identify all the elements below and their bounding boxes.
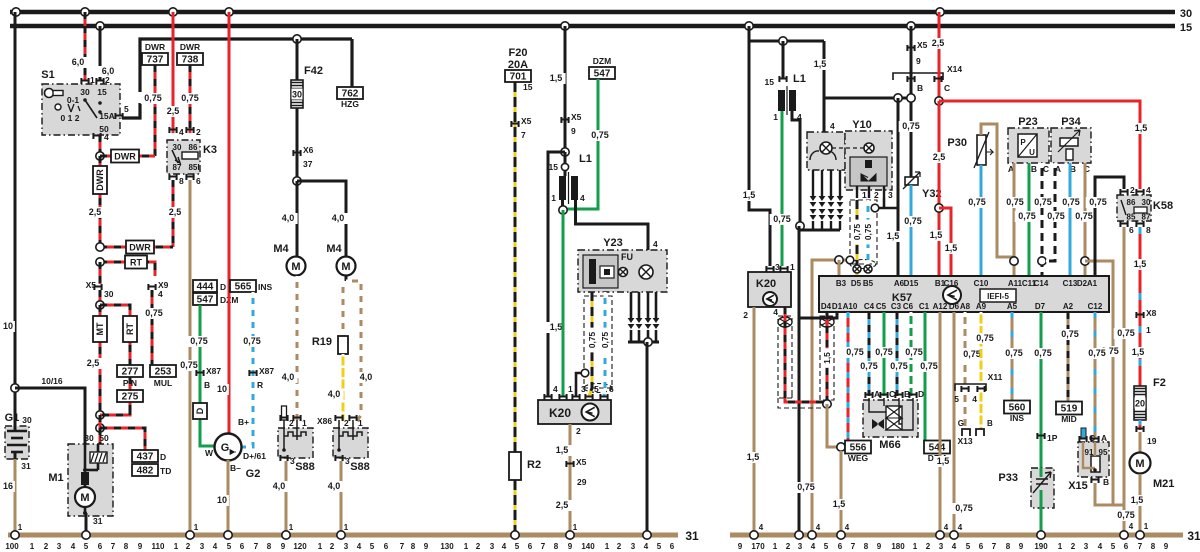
svg-text:0,75: 0,75 — [1075, 211, 1093, 221]
svg-text:0,75: 0,75 — [144, 93, 162, 103]
svg-text:K3: K3 — [203, 144, 217, 156]
wire blue/black 0,75 K57 C3 to M66 B — [896, 312, 899, 396]
svg-text:C: C — [944, 83, 950, 93]
connector X14 bracket — [893, 73, 943, 80]
wire blue 0,75 P30 to K57 terminal C10 — [980, 165, 983, 276]
wire brown 0,75 K57 D6 to bus 31 — [953, 312, 956, 535]
svg-text:31: 31 — [21, 461, 31, 471]
svg-text:30: 30 — [84, 433, 94, 443]
wire black/red 0,75 to 253 MUL — [151, 290, 154, 366]
svg-text:P: P — [1020, 138, 1026, 147]
svg-text:30: 30 — [173, 143, 182, 152]
wire brown 0,75 P34-C to K57 terminal D2 — [1084, 163, 1087, 276]
svg-text:F42: F42 — [304, 65, 323, 77]
svg-text:1: 1 — [790, 262, 795, 272]
svg-text:0,75: 0,75 — [863, 224, 873, 241]
svg-text:0,75: 0,75 — [890, 361, 908, 371]
svg-text:A: A — [874, 389, 880, 399]
svg-text:1: 1 — [773, 112, 778, 122]
svg-text:15: 15 — [549, 162, 559, 172]
wire brown/black 0,75 K57 A2 to 519 MID — [1067, 312, 1070, 402]
svg-text:0,75: 0,75 — [955, 503, 973, 513]
svg-text:738: 738 — [182, 55, 199, 66]
svg-text:C13: C13 — [1063, 279, 1078, 288]
svg-text:4,0: 4,0 — [360, 372, 373, 382]
octane plug X15 — [1081, 428, 1086, 438]
svg-text:1,5: 1,5 — [814, 59, 827, 69]
svg-text:1,5: 1,5 — [1131, 495, 1144, 505]
svg-text:0,75: 0,75 — [1005, 348, 1023, 358]
svg-text:15: 15 — [1180, 22, 1192, 34]
wire black M1 terminal 31 to bus 31 — [85, 513, 88, 535]
svg-text:1,5: 1,5 — [1135, 123, 1148, 133]
svg-text:1: 1 — [358, 418, 363, 428]
svg-text:4: 4 — [1129, 522, 1134, 531]
svg-text:A11: A11 — [1008, 279, 1023, 288]
vertical DWR tag on starter wire — [99, 156, 102, 247]
wire blue/black 0,75 K57 C4 to M66 A — [868, 312, 871, 396]
svg-text:6: 6 — [609, 384, 614, 394]
svg-text:X5: X5 — [571, 112, 582, 122]
node D6 ground — [950, 531, 958, 539]
svg-text:HZG: HZG — [341, 99, 359, 109]
svg-text:9: 9 — [738, 542, 743, 551]
svg-text:C3: C3 — [891, 302, 902, 311]
svg-text:R: R — [257, 380, 263, 390]
svg-text:C: C — [1043, 164, 1049, 174]
svg-text:0,75: 0,75 — [1117, 328, 1135, 338]
wire red 2,5 from bus 30 to K3 terminal 4 — [172, 12, 175, 133]
svg-text:2: 2 — [44, 542, 49, 551]
wire red 2,5 to K57 terminal B1 — [938, 101, 941, 276]
svg-text:547: 547 — [594, 69, 611, 80]
svg-text:D5: D5 — [851, 279, 862, 288]
svg-text:1: 1 — [605, 542, 610, 551]
svg-text:2,5: 2,5 — [167, 106, 180, 116]
svg-text:9: 9 — [1019, 542, 1024, 551]
svg-text:50: 50 — [99, 433, 109, 443]
svg-text:2: 2 — [786, 542, 791, 551]
svg-text:Y10: Y10 — [852, 119, 872, 131]
svg-text:9: 9 — [1164, 542, 1169, 551]
svg-text:6: 6 — [1124, 542, 1129, 551]
svg-text:1: 1 — [551, 193, 556, 203]
svg-text:5: 5 — [84, 542, 89, 551]
svg-text:0,75: 0,75 — [190, 336, 208, 346]
svg-text:9: 9 — [877, 542, 882, 551]
svg-text:8: 8 — [124, 542, 129, 551]
ground bus 31 left segment — [8, 533, 678, 538]
svg-text:30: 30 — [22, 415, 32, 425]
S1 terminal 5 output 15A — [114, 113, 123, 119]
wire black 1,5 from bus 15 down to K20 terminal 3 — [749, 26, 770, 266]
svg-text:B: B — [1103, 477, 1109, 487]
svg-text:0,75: 0,75 — [846, 347, 864, 357]
wire green 0,75 L1 right terminal 1 down to K20 terminal 1 — [781, 111, 784, 266]
svg-text:120: 120 — [293, 542, 307, 551]
svg-text:1,5: 1,5 — [945, 243, 958, 253]
svg-text:29: 29 — [577, 477, 587, 487]
svg-text:B: B — [917, 83, 923, 93]
svg-text:2: 2 — [743, 310, 748, 320]
node coil L1 right feed — [779, 37, 787, 45]
svg-text:8: 8 — [1006, 542, 1011, 551]
node on bus 30 at x85 — [81, 8, 89, 16]
wire black spark return to bus 31 right — [798, 226, 801, 535]
svg-text:2: 2 — [105, 75, 110, 85]
svg-text:4: 4 — [357, 542, 362, 551]
svg-text:B–: B– — [230, 463, 241, 473]
wire brown K20 terminal 2 to bus 31 — [569, 424, 572, 535]
svg-text:5: 5 — [594, 384, 599, 394]
connector pin 1P on knock sensor wire — [1036, 433, 1045, 439]
screen drain brown to bus 31 — [812, 260, 850, 535]
svg-text:4: 4 — [958, 523, 963, 532]
node A11 supply junction — [1010, 257, 1018, 265]
svg-text:86: 86 — [189, 143, 198, 152]
node K3 ground on bus 31 — [186, 531, 194, 539]
svg-text:5: 5 — [515, 542, 520, 551]
svg-text:RT: RT — [125, 323, 135, 335]
svg-text:3: 3 — [798, 542, 803, 551]
fuel pump motor M21 — [1139, 432, 1142, 453]
wire brown 16 from G1 to bus 31 — [14, 459, 17, 535]
svg-text:DWR: DWR — [114, 152, 136, 162]
svg-text:M66: M66 — [879, 439, 900, 451]
svg-text:0,75: 0,75 — [860, 361, 878, 371]
svg-text:2: 2 — [330, 542, 335, 551]
svg-text:9: 9 — [571, 126, 576, 136]
svg-text:2,5: 2,5 — [87, 358, 100, 368]
svg-text:10: 10 — [3, 321, 13, 331]
svg-text:B: B — [204, 380, 210, 390]
svg-text:D: D — [918, 389, 924, 399]
screen outline for Y23 sensor pair — [584, 296, 612, 388]
svg-text:30: 30 — [1142, 198, 1151, 207]
wire brown to K57 terminal B3 — [838, 260, 841, 276]
wire black/yellow from 701 to R2 — [514, 82, 517, 452]
node sensor feed row end — [907, 94, 915, 102]
svg-text:3: 3 — [490, 542, 495, 551]
svg-text:0,75: 0,75 — [1018, 211, 1036, 221]
svg-text:9: 9 — [281, 542, 286, 551]
svg-text:X87: X87 — [259, 366, 274, 376]
svg-text:0,75: 0,75 — [1047, 211, 1065, 221]
svg-text:M4: M4 — [273, 243, 289, 255]
engine control unit K57 — [819, 276, 1109, 312]
svg-text:4: 4 — [553, 384, 558, 394]
connector X87 pin B on green wire — [195, 370, 204, 376]
svg-text:DWR: DWR — [180, 42, 200, 52]
svg-text:4,0: 4,0 — [328, 389, 341, 399]
svg-text:U: U — [1029, 148, 1035, 157]
sensor feed row y98 — [824, 97, 911, 100]
svg-text:0,75: 0,75 — [797, 482, 815, 492]
svg-text:6: 6 — [838, 542, 843, 551]
svg-text:130: 130 — [440, 542, 454, 551]
svg-text:1: 1 — [913, 542, 918, 551]
svg-text:1,5: 1,5 — [833, 499, 846, 509]
svg-text:5: 5 — [954, 394, 959, 404]
svg-text:X6: X6 — [303, 145, 314, 155]
svg-text:6: 6 — [979, 542, 984, 551]
relay K58 — [1117, 195, 1151, 221]
svg-text:8: 8 — [411, 542, 416, 551]
wire brown P30 supply loop to terminal A11 — [981, 124, 1014, 257]
terminal label 253 MUL — [150, 365, 176, 377]
S1 terminal 4 output 50 — [92, 133, 101, 139]
svg-text:1,5: 1,5 — [550, 322, 563, 332]
connector X14 pin B — [906, 76, 915, 82]
node red rail split — [935, 97, 943, 105]
terminal label 556 WEG — [845, 441, 871, 454]
svg-text:1: 1 — [862, 190, 867, 200]
svg-text:19: 19 — [1147, 436, 1157, 446]
control unit K20 right — [748, 272, 791, 307]
terminal label 277 P/N — [117, 365, 143, 377]
svg-text:1: 1 — [773, 542, 778, 551]
node K20 ground on bus 31 — [566, 531, 574, 539]
svg-text:701: 701 — [510, 72, 527, 83]
svg-text:0,75: 0,75 — [1034, 197, 1052, 207]
svg-text:0,75: 0,75 — [145, 308, 163, 318]
svg-text:4,0: 4,0 — [282, 372, 295, 382]
node K58 ground on bus 31 — [1120, 531, 1128, 539]
node P33 ground — [1037, 531, 1045, 539]
terminal label 544 DZM — [924, 441, 950, 454]
svg-text:1: 1 — [573, 523, 578, 532]
svg-text:0,75: 0,75 — [875, 347, 893, 357]
svg-text:MID: MID — [1061, 414, 1077, 424]
node 275 rejoin — [96, 411, 104, 419]
hall sensor ground link to A6 wire — [875, 207, 898, 210]
node screen drain ground — [808, 531, 816, 539]
wire brown/white 4,0 left M4 to S88 pin 1 — [296, 276, 299, 421]
svg-text:2: 2 — [1071, 542, 1076, 551]
svg-text:4: 4 — [816, 523, 821, 532]
svg-text:7: 7 — [992, 542, 997, 551]
svg-text:2,5: 2,5 — [556, 500, 569, 510]
svg-text:D4: D4 — [821, 302, 832, 311]
svg-text:30: 30 — [104, 289, 114, 299]
svg-text:F20: F20 — [509, 47, 528, 59]
screen outline for hall sensor pair — [850, 200, 877, 264]
svg-text:DWR: DWR — [95, 169, 105, 191]
svg-text:C12: C12 — [1088, 302, 1103, 311]
wire black/yellow from R2 to bus 31 — [514, 480, 517, 535]
svg-text:A8: A8 — [960, 302, 971, 311]
svg-text:10: 10 — [217, 384, 227, 394]
svg-text:3: 3 — [344, 542, 349, 551]
svg-text:7: 7 — [1138, 542, 1143, 551]
terminal label 737 — [142, 53, 168, 65]
wire green 0,75 K57 D7 to P33 and bus 31 — [1040, 312, 1043, 535]
svg-text:5: 5 — [657, 542, 662, 551]
distributor feed from y41 row — [823, 41, 826, 133]
wire black to motor split node — [296, 156, 299, 181]
connector X6 pin 19 — [1135, 426, 1144, 432]
connector X6 pin 37 — [292, 150, 301, 156]
svg-text:S88: S88 — [295, 461, 315, 473]
connector X5 pin 9 on coil feed — [560, 117, 569, 123]
connector X14 pin C — [933, 76, 942, 82]
svg-text:C10: C10 — [974, 279, 989, 288]
terminal label 565 INS — [230, 280, 256, 292]
svg-text:0,75: 0,75 — [1062, 197, 1080, 207]
svg-text:4: 4 — [811, 542, 816, 551]
wire brown 4,0 right S88 to bus 31 — [340, 461, 343, 535]
svg-text:1: 1 — [30, 542, 35, 551]
node hall feed — [894, 94, 902, 102]
svg-text:0,75: 0,75 — [1061, 329, 1079, 339]
svg-text:A: A — [1101, 433, 1107, 443]
spark wires from Y10 — [812, 170, 814, 196]
svg-text:6: 6 — [196, 176, 201, 186]
svg-text:0,75: 0,75 — [1034, 348, 1052, 358]
svg-text:180: 180 — [891, 542, 905, 551]
wire red/blue 1,5 K58-8 to fuse F2 — [1139, 227, 1142, 386]
wire black from bus 15 through X5 and X14-B to Y32 — [910, 26, 913, 177]
node on bus 30 at x173 — [169, 8, 177, 16]
svg-text:D: D — [160, 452, 166, 462]
wire green/white 0,75 K57 C6 to M66 D — [910, 312, 913, 396]
node left S88 ground — [282, 531, 290, 539]
wire brown/blue 0,75 K57 C12 to X15 A — [1094, 312, 1097, 438]
svg-text:7: 7 — [541, 542, 546, 551]
svg-text:275: 275 — [122, 392, 139, 403]
svg-text:2: 2 — [344, 418, 349, 428]
svg-text:P23: P23 — [1018, 116, 1038, 128]
svg-text:A1: A1 — [1087, 279, 1098, 288]
svg-text:C4: C4 — [864, 302, 875, 311]
svg-text:2: 2 — [874, 190, 879, 200]
node spark return right on bus 31 — [795, 531, 803, 539]
node coil terminal 1 green junction — [559, 206, 567, 214]
svg-text:0,75: 0,75 — [1089, 197, 1107, 207]
terminal label 275 — [129, 377, 132, 415]
svg-text:0 1 2: 0 1 2 — [61, 113, 80, 123]
svg-text:1,5: 1,5 — [743, 190, 756, 200]
red rail to K58 — [939, 101, 1140, 189]
svg-text:31: 31 — [1187, 529, 1200, 543]
svg-text:2: 2 — [926, 542, 931, 551]
wire black/red 0,75 from 737 down to S1-50 node — [154, 65, 157, 156]
wire blue/white 0,75 hall to K57 terminal B5 — [867, 200, 870, 276]
svg-text:INS: INS — [1010, 413, 1025, 423]
wire brown/white 4,0 right branch to right S88 pin 1 — [346, 281, 361, 421]
svg-text:1: 1 — [1144, 522, 1149, 531]
svg-text:P33: P33 — [998, 472, 1018, 484]
svg-text:100: 100 — [5, 542, 19, 551]
svg-text:560: 560 — [1009, 403, 1026, 414]
svg-text:1,5: 1,5 — [1134, 259, 1147, 269]
wire black L1 right terminal 4 to spark collector — [792, 111, 800, 226]
wire red 10 from bus 30 to G2 B+ — [225, 8, 233, 16]
node D2 junction — [1081, 257, 1089, 265]
svg-text:4: 4 — [158, 289, 163, 299]
wire black/red link S1-50 to 737 with DWR tag — [100, 155, 155, 158]
svg-text:437: 437 — [137, 452, 154, 463]
svg-text:P34: P34 — [1061, 116, 1081, 128]
svg-text:2,5: 2,5 — [169, 207, 182, 217]
svg-text:IEFI-5: IEFI-5 — [987, 292, 1009, 301]
svg-text:F2: F2 — [1153, 377, 1166, 389]
svg-text:140: 140 — [581, 542, 595, 551]
svg-text:30: 30 — [1180, 8, 1192, 20]
junction 10/16 to starter — [11, 384, 19, 392]
svg-text:4,0: 4,0 — [328, 481, 341, 491]
node MT/RT split — [96, 301, 104, 309]
svg-text:4,0: 4,0 — [282, 213, 295, 223]
svg-text:110: 110 — [152, 542, 165, 551]
svg-text:3: 3 — [775, 262, 780, 272]
terminal label 437 D — [132, 450, 158, 462]
svg-text:4: 4 — [580, 193, 585, 203]
svg-text:15: 15 — [765, 77, 775, 87]
svg-text:2,5: 2,5 — [933, 152, 946, 162]
svg-text:8: 8 — [179, 176, 184, 186]
screen symbol on D4 wire — [820, 317, 834, 327]
svg-text:D1: D1 — [832, 302, 843, 311]
wire blue/white 0,75 from 565 to G2 D+ — [242, 292, 253, 447]
wire black 6,0 from S1-15A up and right to F42 feed line — [122, 39, 352, 118]
node M1 ground on bus 31 — [82, 531, 90, 539]
svg-text:1: 1 — [289, 523, 294, 532]
resistor R2 — [509, 452, 521, 480]
svg-text:3: 3 — [200, 542, 205, 551]
svg-text:1,5: 1,5 — [747, 452, 760, 462]
screen symbol on K20 right wire — [778, 317, 792, 327]
svg-text:3: 3 — [581, 384, 586, 394]
svg-text:A5: A5 — [1007, 302, 1018, 311]
wire 10/16 branch to M1 terminal 30 — [15, 388, 85, 444]
svg-text:6: 6 — [670, 542, 675, 551]
wire black/red to M1 terminal 50 — [99, 428, 102, 444]
svg-text:6,0: 6,0 — [72, 57, 85, 67]
node screened link junction — [823, 400, 831, 408]
node DWR link on starter wire — [96, 243, 104, 251]
wire red/blue 0,75 K57 A10 to 556 WEG — [847, 312, 850, 441]
svg-text:3: 3 — [939, 542, 944, 551]
svg-text:0-1: 0-1 — [67, 95, 80, 105]
svg-text:1: 1 — [174, 542, 179, 551]
svg-text:0,75: 0,75 — [902, 121, 920, 131]
svg-text:A12: A12 — [933, 302, 948, 311]
node C14 junction — [1038, 257, 1046, 265]
svg-text:D7: D7 — [1035, 302, 1046, 311]
wire black/red 6,0 from bus 30 to S1 terminal 1 — [84, 12, 87, 81]
svg-text:G: G — [221, 442, 230, 454]
svg-text:1P: 1P — [1047, 433, 1058, 443]
wire brown sensor ground loop to X15 area — [1085, 261, 1113, 505]
svg-text:C: C — [889, 389, 895, 399]
wire green 0,75 K57 C5 to M66 C — [883, 312, 886, 396]
svg-text:37: 37 — [303, 159, 313, 169]
svg-text:4: 4 — [502, 542, 507, 551]
svg-text:4,0: 4,0 — [332, 213, 345, 223]
ignition coil L1 right — [782, 41, 785, 78]
svg-text:1,5: 1,5 — [887, 231, 900, 241]
node on bus 15 at x565 — [561, 22, 569, 30]
svg-text:0,75: 0,75 — [180, 360, 198, 370]
svg-text:X8: X8 — [1146, 308, 1157, 318]
svg-text:B: B — [1031, 164, 1037, 174]
svg-text:X5: X5 — [576, 457, 587, 467]
svg-text:C1: C1 — [919, 302, 930, 311]
node spark collector right — [796, 222, 804, 230]
valve Y32 — [905, 177, 918, 185]
open stub above left S88 pin 2 — [282, 406, 287, 420]
